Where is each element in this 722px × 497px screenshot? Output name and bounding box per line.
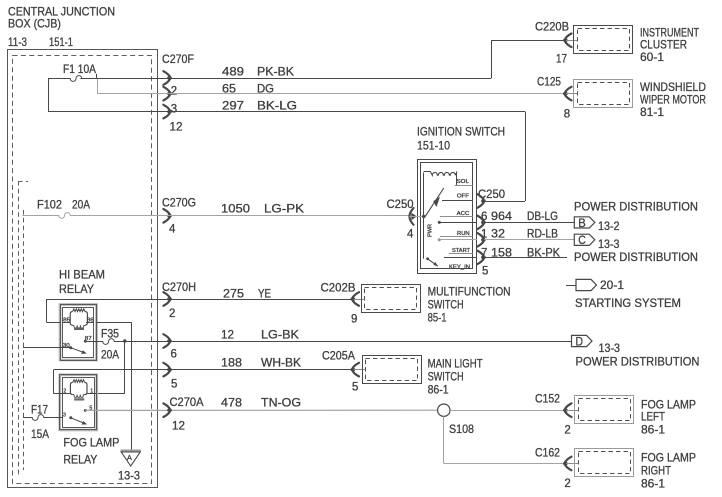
wire 478 TN-OG from fog relay pin 5	[85, 409, 437, 411]
svg-text:YE: YE	[258, 287, 271, 301]
flag C power distribution 13-3	[574, 234, 595, 245]
svg-text:POWER DISTRIBUTION: POWER DISTRIBUTION	[574, 200, 698, 214]
wire 65-DG branch vertical	[97, 78, 99, 94]
fog lamp relay coil	[70, 382, 72, 394]
ignition switch solenoid coil	[424, 172, 457, 176]
svg-text:65: 65	[222, 82, 236, 96]
svg-text:F102: F102	[37, 198, 62, 212]
svg-text:2: 2	[169, 308, 175, 320]
svg-text:13-2: 13-2	[598, 219, 620, 233]
svg-text:489: 489	[222, 65, 244, 79]
wire 275 YE from pin 85 to C270H	[47, 322, 60, 324]
svg-text:C270G: C270G	[162, 196, 196, 210]
svg-text:2: 2	[564, 478, 570, 490]
internal wire 964 contact	[438, 221, 441, 224]
svg-text:WH-BK: WH-BK	[261, 356, 301, 370]
svg-text:POWER DISTRIBUTION: POWER DISTRIBUTION	[576, 355, 700, 369]
svg-text:81-1: 81-1	[640, 105, 664, 119]
svg-text:1050: 1050	[221, 202, 250, 216]
wire pin 86 to ground point A	[97, 322, 132, 324]
svg-text:LG-BK: LG-BK	[261, 328, 299, 342]
splice S108	[438, 404, 450, 416]
svg-text:HI BEAM: HI BEAM	[59, 268, 105, 282]
svg-text:5: 5	[482, 265, 488, 277]
svg-text:1: 1	[481, 228, 487, 240]
fog lamp left connector box	[575, 396, 634, 424]
svg-text:LG-PK: LG-PK	[264, 202, 304, 216]
svg-text:SOL: SOL	[457, 179, 469, 185]
svg-text:RIGHT: RIGHT	[641, 464, 672, 478]
svg-text:13-3: 13-3	[118, 469, 140, 483]
svg-text:3: 3	[63, 413, 66, 419]
wire 964 DB-LG to power distribution	[484, 222, 574, 224]
wire pin 30 feed stub	[23, 347, 71, 349]
fuse F102 20A	[23, 213, 158, 219]
hi beam relay core bar	[74, 328, 84, 330]
svg-text:151-1: 151-1	[49, 35, 73, 49]
svg-text:SWITCH: SWITCH	[428, 298, 464, 312]
svg-text:LEFT: LEFT	[641, 410, 666, 424]
wire 297 BK-LG to ignition switch	[157, 111, 525, 113]
fog relay coil pin stubs	[63, 393, 71, 395]
wire 188 WH-BK from fog relay pin 2	[54, 393, 63, 395]
wire junction at F1 output	[96, 74, 98, 79]
svg-text:MAIN LIGHT: MAIN LIGHT	[428, 357, 484, 371]
svg-text:964: 964	[491, 209, 512, 223]
svg-text:POWER DISTRIBUTION: POWER DISTRIBUTION	[574, 250, 698, 264]
central junction box (CJB) enclosure	[8, 50, 158, 488]
hi beam relay switch arm	[69, 346, 72, 349]
svg-text:C270H: C270H	[162, 280, 196, 294]
svg-text:3: 3	[171, 104, 177, 116]
flag D power distribution 13-3	[572, 335, 593, 346]
wire F35 branch to fog relay coil	[124, 341, 126, 394]
svg-text:86-1: 86-1	[641, 477, 665, 491]
svg-text:13-3: 13-3	[599, 341, 621, 355]
svg-text:PK-BK: PK-BK	[257, 65, 294, 79]
svg-text:OFF: OFF	[457, 194, 470, 200]
svg-text:12: 12	[172, 421, 185, 433]
svg-text:2: 2	[171, 86, 177, 98]
svg-text:C202B: C202B	[321, 281, 356, 295]
svg-text:TN-OG: TN-OG	[261, 396, 301, 410]
svg-text:60-1: 60-1	[640, 50, 664, 64]
relay K1 hi beam relay box	[60, 305, 97, 361]
ignition switch rotary wiper arm	[425, 188, 444, 218]
wire 158 BK-PK to power distribution	[484, 257, 567, 259]
svg-text:F35: F35	[101, 327, 119, 341]
svg-text:85-1: 85-1	[428, 311, 447, 325]
svg-text:B: B	[578, 216, 586, 230]
multifunction switch connector box	[362, 285, 421, 313]
svg-text:478: 478	[221, 396, 242, 410]
relay K2 fog lamp relay box	[60, 375, 97, 430]
svg-text:20A: 20A	[72, 198, 90, 212]
hi beam relay coil	[70, 312, 72, 326]
svg-text:5: 5	[352, 382, 358, 394]
windshield wiper motor connector box	[574, 80, 633, 108]
svg-text:17: 17	[556, 54, 567, 66]
svg-text:13-3: 13-3	[598, 237, 620, 251]
svg-text:BOX (CJB): BOX (CJB)	[8, 17, 61, 31]
svg-text:C220B: C220B	[535, 20, 569, 34]
svg-text:C162: C162	[535, 446, 560, 460]
svg-text:6: 6	[171, 349, 177, 361]
ignition switch key-in contact arm	[426, 257, 429, 260]
svg-text:DB-LG: DB-LG	[527, 209, 558, 223]
svg-text:6: 6	[481, 211, 487, 223]
svg-text:9: 9	[351, 314, 357, 326]
internal wire 158 contact	[444, 257, 477, 259]
wire 32 RD-LB to power distribution	[484, 239, 574, 241]
svg-text:5: 5	[171, 378, 177, 390]
junction F35 output	[123, 339, 126, 342]
svg-text:11-3: 11-3	[8, 35, 27, 49]
svg-text:C: C	[578, 233, 586, 247]
svg-text:A: A	[127, 453, 132, 462]
wire 12 LG-BK to power distribution D	[125, 341, 572, 343]
fog relay switch arm	[69, 416, 72, 419]
svg-text:C270A: C270A	[170, 395, 204, 409]
svg-text:RELAY: RELAY	[63, 453, 97, 467]
wire 65 DG to wiper motor	[157, 93, 565, 95]
wire S108 branch to C162	[443, 416, 445, 463]
svg-text:32: 32	[491, 226, 505, 240]
svg-text:151-10: 151-10	[417, 139, 450, 153]
svg-text:MULTIFUNCTION: MULTIFUNCTION	[428, 285, 511, 299]
svg-text:C125: C125	[537, 75, 561, 89]
svg-text:FOG LAMP: FOG LAMP	[63, 436, 119, 450]
svg-text:15A: 15A	[31, 427, 49, 441]
svg-text:12: 12	[170, 122, 183, 134]
ignition switch internal bus	[423, 173, 425, 259]
svg-text:275: 275	[223, 287, 244, 301]
CJB inner fuse-panel dashed partition	[18, 181, 28, 183]
connector C270 pin 5	[163, 363, 170, 369]
svg-text:188: 188	[221, 356, 242, 370]
flag 20-1 starting system	[566, 285, 576, 287]
svg-text:SWITCH: SWITCH	[428, 370, 464, 384]
fuse F1 10A	[48, 76, 157, 82]
svg-text:F1 10A: F1 10A	[63, 62, 96, 76]
fog lamp right connector box	[575, 449, 634, 477]
svg-text:D: D	[576, 334, 584, 348]
svg-text:4: 4	[407, 229, 414, 241]
svg-text:RD-LB: RD-LB	[527, 226, 558, 240]
svg-text:FOG LAMP: FOG LAMP	[641, 451, 696, 465]
svg-text:297: 297	[222, 99, 244, 113]
svg-text:DG: DG	[257, 82, 274, 96]
internal wire 32 contact	[438, 238, 441, 241]
svg-text:8: 8	[564, 109, 570, 121]
svg-text:S108: S108	[449, 422, 474, 436]
fuse F35 20A	[85, 339, 125, 345]
wire S108 to C152	[450, 410, 565, 412]
wire 1050 LG-PK to ignition switch	[157, 215, 410, 217]
svg-text:STARTING SYSTEM: STARTING SYSTEM	[575, 296, 681, 310]
wire 489 PK-BK to instrument cluster	[80, 78, 491, 80]
svg-text:PWR: PWR	[428, 224, 434, 237]
svg-text:86-1: 86-1	[428, 383, 449, 397]
ignition switch U1 box	[418, 160, 477, 274]
svg-text:20-1: 20-1	[600, 278, 624, 292]
hi beam relay coil pin stubs	[63, 322, 71, 324]
svg-text:12: 12	[221, 328, 234, 342]
svg-text:2: 2	[564, 425, 570, 437]
svg-text:20A: 20A	[101, 348, 119, 362]
instrument cluster connector box	[574, 26, 633, 54]
svg-text:BK-PK: BK-PK	[527, 245, 560, 259]
svg-text:C205A: C205A	[322, 349, 355, 363]
fog lamp relay core bar	[74, 398, 84, 401]
connector C270 pin 6	[163, 334, 170, 340]
svg-text:IGNITION SWITCH: IGNITION SWITCH	[417, 125, 505, 139]
svg-text:4: 4	[169, 224, 176, 236]
ground reference A 13-3	[121, 450, 141, 452]
svg-text:30: 30	[63, 343, 70, 349]
svg-text:C250: C250	[387, 197, 414, 211]
svg-text:158: 158	[491, 245, 512, 259]
svg-text:C270F: C270F	[162, 52, 194, 66]
flag B power distribution 13-2	[574, 217, 595, 228]
wire 297 branch vertical	[48, 78, 50, 112]
svg-text:KEY_IN: KEY_IN	[449, 264, 470, 270]
fuse F17 15A	[23, 415, 63, 421]
main light switch connector box	[363, 356, 422, 384]
svg-text:86-1: 86-1	[641, 423, 665, 437]
svg-text:RELAY: RELAY	[59, 282, 94, 296]
svg-text:F17: F17	[31, 403, 48, 417]
svg-text:BK-LG: BK-LG	[257, 99, 297, 113]
svg-text:C152: C152	[535, 392, 560, 406]
